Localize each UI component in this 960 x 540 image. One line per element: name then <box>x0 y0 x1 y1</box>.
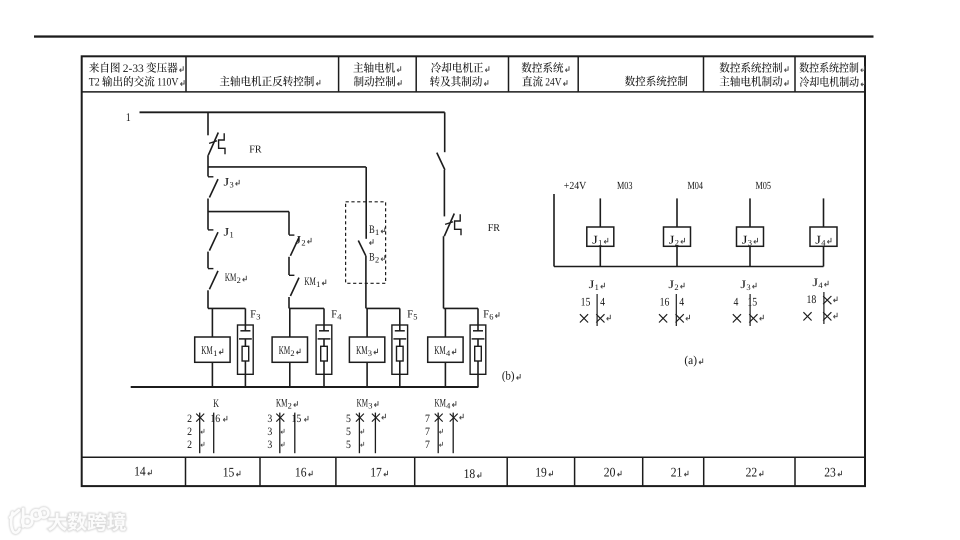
svg-text:2: 2 <box>375 256 379 265</box>
svg-text:M03: M03 <box>617 180 633 192</box>
svg-text:M04: M04 <box>688 180 704 192</box>
svg-text:F: F <box>331 309 337 321</box>
svg-text:2: 2 <box>288 402 292 411</box>
svg-text:3: 3 <box>230 180 234 189</box>
svg-text:2: 2 <box>301 238 305 247</box>
svg-text:2: 2 <box>675 238 679 247</box>
svg-text:17: 17 <box>370 465 382 480</box>
svg-text:7: 7 <box>425 413 430 425</box>
svg-text:1: 1 <box>598 238 602 247</box>
svg-text:20: 20 <box>604 465 616 480</box>
svg-text:1: 1 <box>316 280 320 289</box>
svg-text:2: 2 <box>187 413 192 425</box>
svg-text:5: 5 <box>413 313 417 322</box>
svg-text:6: 6 <box>489 313 493 322</box>
svg-text:3: 3 <box>267 426 272 438</box>
svg-text:(b): (b) <box>502 369 515 383</box>
svg-text:3: 3 <box>746 283 750 292</box>
svg-text:23: 23 <box>824 465 836 480</box>
svg-text:110V: 110V <box>157 77 179 89</box>
svg-text:KM: KM <box>201 343 213 357</box>
svg-text:21: 21 <box>671 465 683 480</box>
svg-text:F: F <box>250 309 256 321</box>
svg-text:F: F <box>483 309 489 321</box>
svg-text:FR: FR <box>488 223 501 234</box>
svg-text:7: 7 <box>425 426 430 438</box>
svg-text:3: 3 <box>267 413 272 425</box>
svg-text:M05: M05 <box>756 180 772 192</box>
svg-text:3: 3 <box>368 349 372 358</box>
svg-text:16: 16 <box>295 465 307 480</box>
svg-text:KM: KM <box>304 276 315 288</box>
svg-text:16: 16 <box>210 413 220 425</box>
svg-text:2-33: 2-33 <box>123 63 144 75</box>
svg-text:14: 14 <box>134 464 146 479</box>
svg-text:F: F <box>407 309 413 321</box>
svg-text:5: 5 <box>346 426 351 438</box>
svg-text:+24V: +24V <box>564 180 587 192</box>
svg-text:K: K <box>213 398 219 410</box>
svg-text:KM: KM <box>225 272 236 284</box>
svg-text:(a): (a) <box>684 353 697 367</box>
svg-text:15: 15 <box>223 465 235 480</box>
svg-text:1: 1 <box>230 231 234 240</box>
svg-text:18: 18 <box>807 293 817 306</box>
svg-text:1: 1 <box>126 110 131 124</box>
svg-text:2: 2 <box>187 439 192 451</box>
svg-text:24V: 24V <box>545 77 562 89</box>
svg-text:2: 2 <box>290 349 294 358</box>
svg-text:19: 19 <box>535 465 547 480</box>
svg-text:1: 1 <box>595 283 599 292</box>
svg-text:FR: FR <box>249 144 262 155</box>
svg-text:2: 2 <box>237 276 241 285</box>
svg-text:4: 4 <box>734 295 739 308</box>
svg-text:3: 3 <box>748 238 752 247</box>
svg-text:18: 18 <box>464 466 476 481</box>
svg-text:1: 1 <box>375 228 379 237</box>
svg-text:KM: KM <box>434 343 446 357</box>
svg-text:15: 15 <box>747 295 757 308</box>
svg-text:15: 15 <box>292 413 302 425</box>
svg-text:5: 5 <box>346 413 351 425</box>
svg-text:KM: KM <box>279 343 291 357</box>
svg-text:7: 7 <box>425 439 430 451</box>
svg-text:4: 4 <box>679 295 684 308</box>
svg-text:3: 3 <box>267 439 272 451</box>
svg-text:KM: KM <box>356 343 368 357</box>
svg-text:2: 2 <box>187 426 192 438</box>
svg-text:16: 16 <box>660 295 670 308</box>
svg-text:3: 3 <box>256 313 260 322</box>
svg-text:KM: KM <box>435 398 446 410</box>
svg-text:1: 1 <box>213 349 217 358</box>
svg-text:3: 3 <box>368 402 372 411</box>
svg-text:22: 22 <box>746 465 758 480</box>
svg-text:2: 2 <box>674 283 678 292</box>
svg-text:15: 15 <box>581 295 591 308</box>
svg-text:T2: T2 <box>89 77 100 89</box>
svg-text:5: 5 <box>346 439 351 451</box>
svg-text:4: 4 <box>600 295 605 308</box>
svg-text:KM: KM <box>276 398 287 410</box>
svg-text:KM: KM <box>357 398 368 410</box>
